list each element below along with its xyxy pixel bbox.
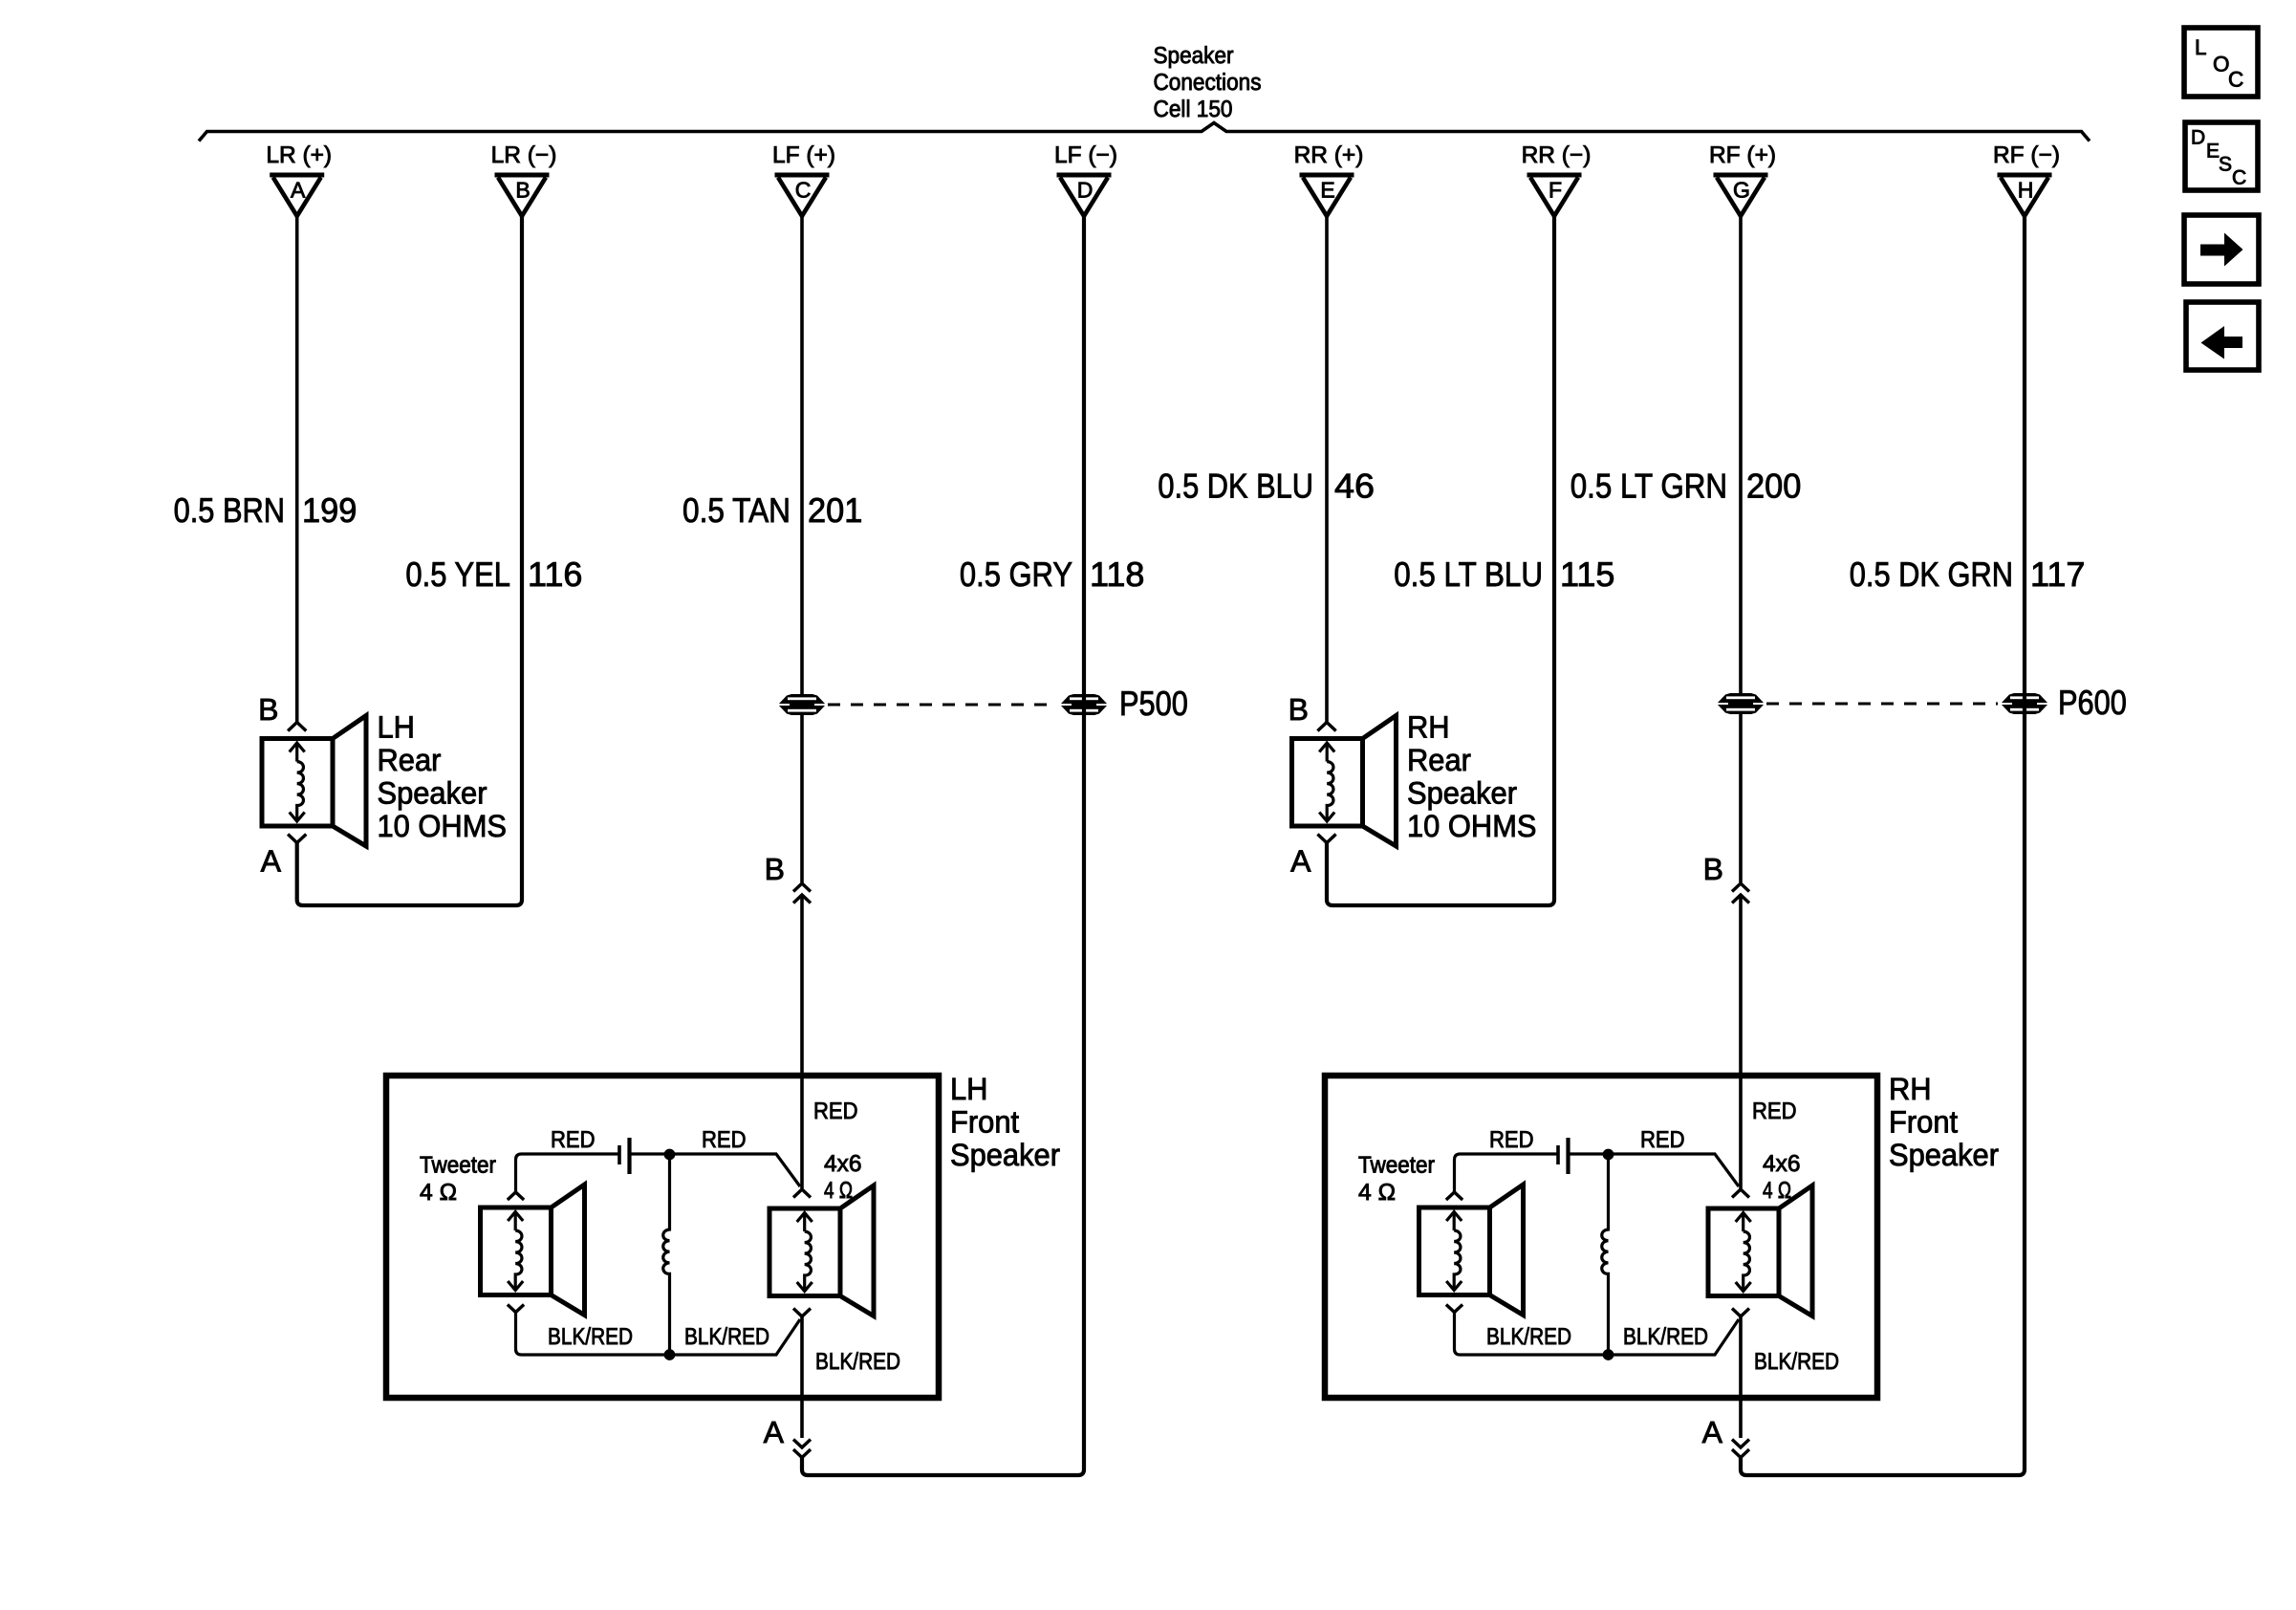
wire RH front speaker return to pin H (0.5 DK GRN) — [1741, 216, 2025, 1475]
label 0.5 GRY | 118 — [960, 555, 1145, 594]
wire out of LH front speaker 4x6 (BLK/RED) — [800, 1316, 804, 1438]
svg-text:RF (−): RF (−) — [1993, 142, 2060, 168]
svg-text:BLK/RED: BLK/RED — [1486, 1324, 1571, 1350]
in-line connector G half (P600) — [1718, 693, 1764, 714]
svg-text:4 Ω: 4 Ω — [824, 1178, 853, 1204]
svg-text:4 Ω: 4 Ω — [420, 1180, 457, 1206]
tweeter bottom connector chevron — [508, 1305, 524, 1313]
wire RR(+) 0.5 DK BLU 46 : pin E down to RH rear speaker — [1325, 216, 1329, 722]
svg-text:0.5 GRY: 0.5 GRY — [960, 555, 1072, 594]
junction node bottom — [1603, 1350, 1614, 1360]
nav icon arrow right — [2184, 215, 2259, 284]
svg-text:Speaker: Speaker — [1889, 1138, 1999, 1172]
svg-text:Tweeter: Tweeter — [420, 1153, 496, 1179]
label 0.5 LT GRN | 200 — [1570, 467, 1802, 506]
wire tweeter bottom lead (BLK/RED) — [1455, 1312, 1740, 1355]
svg-text:H: H — [2018, 178, 2034, 203]
tweeter top connector chevron — [1446, 1192, 1462, 1200]
svg-text:RED: RED — [1752, 1099, 1797, 1124]
svg-text:B: B — [515, 178, 530, 203]
svg-text:117: 117 — [2030, 555, 2085, 594]
capacitor — [1558, 1138, 1569, 1174]
svg-text:BLK/RED: BLK/RED — [1754, 1349, 1839, 1375]
svg-text:A: A — [1290, 844, 1311, 879]
LH front speaker enclosure box — [386, 1076, 939, 1398]
connector pin H: RF (&#8722;) — [1993, 142, 2060, 216]
junction node top — [664, 1149, 675, 1160]
svg-text:RH: RH — [1407, 710, 1450, 745]
svg-text:Speaker: Speaker — [1407, 776, 1517, 811]
svg-text:RR (+): RR (+) — [1294, 142, 1364, 168]
svg-text:Front: Front — [1889, 1105, 1958, 1140]
connector chevrons at LH front pin B — [793, 883, 811, 892]
chevron at RH rear speaker pin A — [1317, 835, 1335, 843]
svg-text:D: D — [2191, 127, 2205, 149]
nav icon LOC — [2184, 28, 2258, 97]
wire tweeter top lead (RED) — [516, 1154, 620, 1192]
label 0.5 LT BLU | 115 — [1394, 555, 1614, 594]
svg-text:0.5 LT GRN: 0.5 LT GRN — [1570, 467, 1727, 506]
in-line connector C half (P500) — [779, 694, 825, 715]
svg-text:RED: RED — [813, 1099, 858, 1124]
svg-text:0.5 DK GRN: 0.5 DK GRN — [1850, 555, 2013, 594]
svg-text:E: E — [1320, 178, 1334, 203]
svg-text:A: A — [764, 1415, 785, 1449]
tweeter bottom connector chevron — [1446, 1305, 1462, 1313]
chevron at LH rear speaker pin B — [288, 723, 306, 731]
4x6 bottom connector chevron — [793, 1309, 811, 1317]
svg-text:G: G — [1733, 178, 1750, 203]
svg-text:RED: RED — [1489, 1127, 1534, 1153]
svg-text:C: C — [2232, 167, 2246, 189]
svg-text:LH: LH — [378, 710, 416, 745]
tweeter label — [420, 1153, 496, 1207]
svg-text:RF (+): RF (+) — [1709, 142, 1776, 168]
svg-text:RED: RED — [1640, 1127, 1685, 1153]
svg-text:B: B — [1289, 692, 1309, 727]
svg-text:Front: Front — [950, 1105, 1019, 1140]
connector pin B: LR (&#8722;) — [491, 142, 557, 216]
svg-text:200: 200 — [1746, 467, 1801, 506]
junction node top — [1603, 1149, 1614, 1160]
svg-text:L: L — [2195, 35, 2207, 59]
label 0.5 BRN | 199 — [174, 490, 357, 530]
svg-text:E: E — [2206, 141, 2220, 163]
in-line connector H half (P600) — [2002, 693, 2047, 714]
4x6 speaker RH — [1708, 1186, 1812, 1316]
capacitor — [619, 1138, 630, 1174]
wire capacitor to junction to diagonal (RED) — [630, 1154, 801, 1186]
tweeter RH front — [1419, 1185, 1524, 1316]
svg-text:116: 116 — [528, 555, 582, 594]
connector chevrons at LH front pin A — [793, 1440, 811, 1448]
wire RF(+) 0.5 LT GRN 200 : pin G down through P600 — [1739, 216, 1743, 882]
svg-text:B: B — [765, 852, 785, 886]
svg-text:A: A — [261, 844, 282, 879]
wire LF(+) 0.5 TAN 201 : pin C down through P500 — [800, 216, 804, 882]
svg-text:4 Ω: 4 Ω — [1763, 1178, 1791, 1204]
4x6 label — [1763, 1151, 1801, 1204]
junction node bottom — [664, 1350, 675, 1360]
nav icon DESC — [2185, 122, 2258, 190]
svg-text:LF (+): LF (+) — [772, 142, 835, 168]
label 0.5 DK GRN | 117 — [1850, 555, 2086, 594]
svg-text:C: C — [2228, 68, 2243, 92]
in-line connector D half (P500) — [1061, 694, 1107, 715]
label LH Rear Speaker 10 OHMS — [378, 710, 508, 844]
connector pin C: LF (+) — [772, 142, 835, 216]
crossover inductor — [663, 1154, 670, 1355]
svg-text:0.5 BRN: 0.5 BRN — [174, 490, 285, 530]
svg-text:LR (−): LR (−) — [491, 142, 557, 168]
brace over connector row — [199, 123, 2090, 141]
svg-text:BLK/RED: BLK/RED — [548, 1324, 633, 1350]
connector pin D: LF (&#8722;) — [1054, 142, 1117, 216]
wire out of RH front speaker 4x6 (BLK/RED) — [1739, 1316, 1743, 1438]
connector chevrons at RH front pin A — [1732, 1440, 1749, 1448]
svg-text:A: A — [1702, 1415, 1723, 1449]
svg-text:B: B — [258, 692, 278, 727]
svg-text:0.5 LT BLU: 0.5 LT BLU — [1394, 555, 1543, 594]
svg-text:RH: RH — [1889, 1072, 1932, 1106]
4x6 speaker LH — [769, 1186, 874, 1316]
tweeter top connector chevron — [508, 1192, 524, 1200]
svg-text:46: 46 — [1334, 467, 1375, 506]
dashed connector tie line P500 — [828, 704, 1057, 707]
svg-text:199: 199 — [302, 490, 357, 530]
svg-text:4 Ω: 4 Ω — [1358, 1180, 1396, 1206]
svg-text:F: F — [1549, 178, 1562, 203]
connector chevrons at RH front pin B — [1732, 883, 1749, 892]
svg-text:S: S — [2219, 154, 2232, 176]
svg-text:115: 115 — [1560, 555, 1614, 594]
svg-text:BLK/RED: BLK/RED — [815, 1349, 900, 1375]
4x6 bottom connector chevron — [1732, 1309, 1749, 1317]
label 0.5 DK BLU | 46 — [1158, 467, 1375, 506]
connector pin A: LR (+) — [266, 142, 332, 216]
chevron at RH rear speaker pin B — [1317, 723, 1335, 731]
svg-text:10 OHMS: 10 OHMS — [1407, 809, 1537, 843]
svg-text:4x6: 4x6 — [824, 1151, 862, 1177]
connector pin G: RF (+) — [1709, 142, 1776, 216]
svg-text:10 OHMS: 10 OHMS — [378, 809, 508, 843]
label LH Front Speaker — [950, 1072, 1060, 1172]
svg-text:RED: RED — [551, 1127, 596, 1153]
svg-text:Speaker: Speaker — [950, 1138, 1060, 1172]
4x6 top connector chevron — [793, 1189, 811, 1198]
svg-text:LF (−): LF (−) — [1054, 142, 1117, 168]
svg-text:RED: RED — [702, 1127, 747, 1153]
node: harness source note "Speaker Conections Cell 150" — [1154, 43, 1262, 122]
svg-text:0.5 DK BLU: 0.5 DK BLU — [1158, 467, 1313, 506]
label RH Front Speaker — [1889, 1072, 1999, 1172]
crossover inductor — [1602, 1154, 1609, 1355]
tweeter LH front — [481, 1185, 585, 1316]
wire into LH front speaker (RED) — [800, 895, 804, 1188]
wire into RH front speaker (RED) — [1739, 895, 1743, 1188]
wire LH rear speaker return to pin B wire (0.5 YEL) — [297, 216, 522, 905]
svg-text:Speaker: Speaker — [1154, 43, 1234, 69]
svg-text:B: B — [1703, 852, 1723, 886]
dashed connector tie line P600 — [1766, 703, 1998, 706]
wire RH rear speaker return to pin F wire (0.5 LT BLU) — [1327, 216, 1554, 905]
svg-text:4x6: 4x6 — [1763, 1151, 1801, 1177]
LH rear speaker — [262, 716, 366, 847]
svg-text:Speaker: Speaker — [378, 776, 487, 811]
wire LH front speaker return to pin D (0.5 GRY) — [802, 216, 1084, 1475]
wire tweeter top lead (RED) — [1455, 1154, 1559, 1192]
svg-text:C: C — [795, 178, 812, 203]
wire LR(+) 0.5 BRN 199 : pin A down to LH rear speaker — [295, 216, 299, 722]
svg-text:201: 201 — [808, 490, 862, 530]
connector pin E: RR (+) — [1294, 142, 1364, 216]
connector pin F: RR (&#8722;) — [1522, 142, 1592, 216]
svg-text:O: O — [2213, 53, 2230, 76]
tweeter label — [1358, 1153, 1435, 1207]
svg-text:P500: P500 — [1119, 684, 1188, 723]
svg-text:Rear: Rear — [378, 743, 442, 777]
4x6 label — [824, 1151, 862, 1204]
label RH Rear Speaker 10 OHMS — [1407, 710, 1537, 844]
svg-text:A: A — [291, 178, 306, 203]
svg-text:Tweeter: Tweeter — [1358, 1153, 1435, 1179]
svg-text:LR (+): LR (+) — [266, 142, 332, 168]
svg-text:0.5 TAN: 0.5 TAN — [682, 490, 791, 530]
svg-text:Rear: Rear — [1407, 743, 1471, 777]
svg-text:D: D — [1077, 178, 1094, 203]
chevron at LH rear speaker pin A — [288, 835, 306, 843]
svg-text:BLK/RED: BLK/RED — [1623, 1324, 1708, 1350]
RH rear speaker — [1292, 716, 1397, 847]
label 0.5 YEL | 116 — [405, 555, 582, 594]
4x6 top connector chevron — [1732, 1189, 1749, 1198]
svg-text:118: 118 — [1090, 555, 1144, 594]
svg-text:RR (−): RR (−) — [1522, 142, 1592, 168]
svg-text:BLK/RED: BLK/RED — [684, 1324, 769, 1350]
nav icon arrow left — [2186, 302, 2259, 370]
RH front speaker enclosure box — [1325, 1076, 1877, 1398]
svg-text:P600: P600 — [2058, 683, 2127, 722]
label 0.5 TAN | 201 — [682, 490, 862, 530]
svg-text:LH: LH — [950, 1072, 988, 1106]
wire tweeter bottom lead (BLK/RED) — [516, 1312, 801, 1355]
svg-text:Cell 150: Cell 150 — [1154, 97, 1233, 122]
svg-text:0.5 YEL: 0.5 YEL — [405, 555, 510, 594]
svg-text:Conections: Conections — [1154, 70, 1262, 96]
wire capacitor to junction to diagonal (RED) — [1569, 1154, 1740, 1186]
